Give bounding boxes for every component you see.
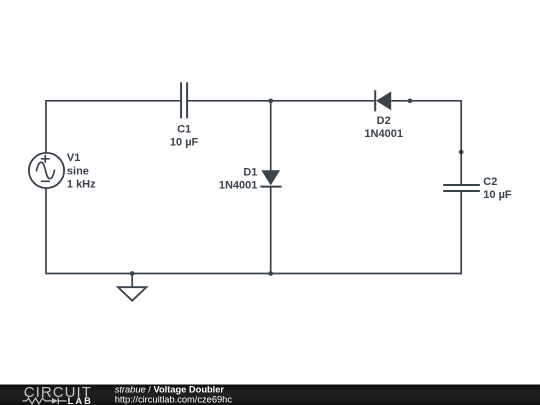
- logo diode: [52, 398, 67, 404]
- capacitor C1: [181, 82, 187, 118]
- svg-text:V1: V1: [67, 152, 80, 164]
- diode D2: [375, 90, 391, 111]
- diode D1: [260, 170, 281, 186]
- C2 value labels: [483, 176, 512, 201]
- svg-text:strabue / Voltage Doubler: strabue / Voltage Doubler: [115, 384, 225, 394]
- D2 value labels: [364, 115, 403, 140]
- svg-text:D2: D2: [377, 115, 391, 127]
- svg-text:sine: sine: [67, 165, 89, 177]
- wire top-left (V1 top to C1 left plate): [46, 101, 181, 153]
- svg-text:C1: C1: [177, 123, 191, 135]
- wire top-right (D2 anode to right corner, down to C2 top plate): [391, 101, 461, 185]
- wire D1 cathode (D1 bar down to bottom rail): [270, 187, 272, 274]
- logo LAB wordmark: [68, 395, 93, 405]
- wire top-middle (C1 right plate to D2 cathode bar): [187, 100, 375, 102]
- svg-text:C2: C2: [483, 176, 497, 188]
- svg-text:http://circuitlab.com/cze69hc: http://circuitlab.com/cze69hc: [115, 394, 233, 404]
- svg-text:LAB: LAB: [68, 395, 93, 405]
- V1 value labels: [67, 152, 96, 191]
- svg-text:10 µF: 10 µF: [483, 189, 512, 201]
- junction dot ground node: [130, 271, 135, 276]
- svg-text:10 µF: 10 µF: [170, 137, 199, 149]
- voltage source V1: [29, 153, 64, 188]
- banner bar: [0, 385, 540, 405]
- svg-text:D1: D1: [243, 167, 257, 179]
- junction dot node A (top of D1): [268, 98, 273, 103]
- banner url line: [115, 394, 233, 404]
- svg-text:1N4001: 1N4001: [364, 128, 403, 140]
- junction dot node C (top of C2): [459, 150, 464, 155]
- wire bottom (C2 bottom plate, bottom rail, up to V1 bottom): [46, 188, 461, 274]
- wire D1 anode (top node down to D1 triangle): [270, 101, 272, 171]
- capacitor C2: [443, 185, 480, 191]
- logo CIRCUIT wordmark: [24, 384, 92, 401]
- junction dot bottom of D1: [268, 271, 273, 276]
- junction dot node B (right of D2): [408, 98, 413, 103]
- C1 value labels: [170, 123, 199, 148]
- banner title line: [115, 384, 225, 394]
- svg-text:1N4001: 1N4001: [219, 179, 258, 191]
- ground: [118, 274, 146, 301]
- logo resistor zigzag: [23, 398, 52, 404]
- svg-text:1 kHz: 1 kHz: [67, 179, 96, 191]
- D1 value labels: [219, 167, 258, 192]
